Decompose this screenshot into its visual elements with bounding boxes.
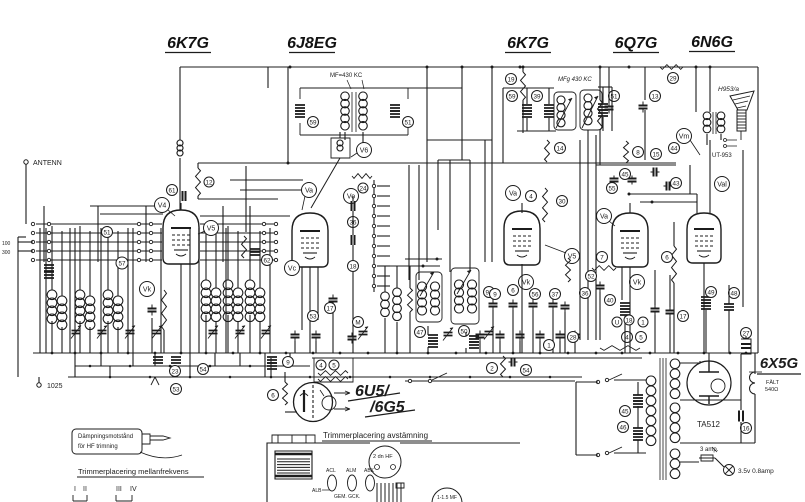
junction	[349, 376, 352, 379]
svg-text:I: I	[74, 486, 76, 493]
terminal	[408, 379, 411, 382]
svg-text:Trimmerplacering avstämning: Trimmerplacering avstämning	[323, 431, 428, 440]
junction	[285, 352, 288, 355]
wire Vm pointer	[690, 140, 700, 155]
resistor R15	[598, 100, 603, 130]
wire	[552, 310, 554, 353]
capacitor C39b	[544, 111, 554, 117]
trimmer capacitor	[208, 326, 218, 339]
IF2 former 1	[554, 92, 576, 130]
svg-text:2 dn HF: 2 dn HF	[373, 454, 393, 460]
label circle 39	[532, 91, 543, 102]
label circle 40	[605, 295, 616, 306]
svg-text:16: 16	[742, 425, 750, 432]
svg-text:50: 50	[460, 328, 468, 335]
wire stub	[18, 250, 33, 252]
label circle 6	[508, 285, 519, 296]
svg-text:17: 17	[326, 305, 334, 312]
IF transformer T1 frame	[300, 88, 408, 135]
switch contact	[31, 231, 34, 234]
wire	[673, 283, 675, 353]
wire stub	[377, 195, 390, 197]
wire	[637, 382, 639, 395]
label circle Vk	[140, 282, 155, 297]
junction	[209, 365, 212, 368]
label circle 51	[102, 227, 113, 238]
tube V2 6K7G	[504, 211, 540, 265]
coil RF L4b	[211, 288, 221, 322]
svg-text:Vm: Vm	[679, 134, 690, 141]
wire	[715, 458, 724, 467]
switch contact	[149, 231, 152, 234]
wire top HT bus	[180, 66, 758, 68]
label circle 37	[550, 289, 561, 300]
capacitor C23b	[171, 357, 181, 363]
wire	[587, 130, 589, 340]
switch contact	[31, 240, 34, 243]
junction	[539, 352, 542, 355]
junction	[169, 365, 172, 368]
capacitor C51	[390, 105, 400, 111]
wire	[680, 442, 755, 444]
wire	[728, 310, 730, 353]
svg-text:28: 28	[569, 334, 577, 341]
wire switch row	[36, 250, 162, 252]
underline mf	[77, 476, 204, 478]
wire	[469, 160, 471, 272]
wire	[237, 231, 239, 288]
junction	[461, 66, 464, 69]
wire	[89, 327, 91, 353]
wire IF2 bottom rail	[517, 130, 556, 132]
wire	[315, 341, 317, 353]
svg-text:61: 61	[168, 187, 176, 194]
junction	[709, 66, 712, 69]
wire	[249, 226, 251, 280]
label circle Vk	[519, 275, 534, 290]
text H953a	[718, 86, 739, 93]
capacitor C42	[666, 307, 675, 318]
wire eye to box	[312, 382, 314, 383]
text GEM GCK	[334, 494, 360, 500]
wire	[703, 263, 705, 353]
text I	[74, 486, 76, 493]
label circle 59	[308, 117, 319, 128]
svg-text:MFg 430 KC: MFg 430 KC	[558, 77, 592, 83]
wire	[384, 318, 386, 353]
text 6G5	[369, 399, 406, 416]
ground lug	[151, 377, 159, 385]
trimmer ABK	[366, 475, 375, 491]
resistor R10	[624, 141, 629, 163]
switch contact	[262, 240, 265, 243]
wire	[396, 322, 398, 353]
switch contact	[149, 240, 152, 243]
junction	[567, 352, 570, 355]
coil osc Lb1	[418, 282, 427, 315]
wire coupling a	[629, 193, 697, 195]
label circle Val	[715, 177, 730, 192]
switch contact	[274, 231, 277, 234]
junction	[429, 376, 432, 379]
label circle 6	[662, 252, 673, 263]
wire	[352, 245, 354, 260]
label circle V5	[565, 249, 580, 264]
wire	[745, 336, 747, 339]
wire bus 2 left	[75, 365, 310, 367]
switch contact	[31, 249, 34, 252]
label circle 59	[507, 91, 518, 102]
arrow T2 core 2	[582, 96, 598, 128]
wire	[270, 358, 272, 377]
wire	[502, 88, 504, 163]
wire	[317, 267, 319, 320]
wire switch stem	[373, 180, 375, 292]
capacitor C18	[610, 176, 619, 185]
wire coupling b	[640, 201, 697, 203]
wire	[740, 354, 742, 400]
junction	[651, 201, 654, 204]
wire	[309, 267, 311, 353]
wire left edge	[17, 237, 19, 377]
coil former 2	[451, 268, 479, 324]
wire	[427, 326, 429, 335]
label circle 47	[415, 327, 426, 338]
tube V1 6J8EG	[292, 213, 328, 267]
svg-text:56: 56	[531, 291, 539, 298]
switch contact S2	[372, 194, 375, 197]
junction	[469, 376, 472, 379]
svg-text:30: 30	[558, 198, 566, 205]
switch mains b	[596, 453, 599, 456]
switch contact S2	[372, 274, 375, 277]
switch contact	[47, 240, 50, 243]
capacitor row	[556, 331, 565, 342]
coil choke L7	[177, 140, 183, 156]
switch contact	[262, 249, 265, 252]
switch contact	[262, 222, 265, 225]
wire osc feed	[408, 165, 410, 280]
wire	[18, 236, 26, 238]
padding capacitor C64a	[428, 335, 438, 341]
junction	[703, 352, 706, 355]
wire cathode down	[180, 264, 182, 353]
wire row link	[90, 205, 160, 207]
label circle V4	[155, 198, 170, 213]
svg-text:48: 48	[730, 290, 738, 297]
label circle V5	[204, 221, 219, 236]
svg-text:300: 300	[2, 250, 11, 256]
switch contact	[47, 258, 50, 261]
label circle 1	[544, 340, 555, 351]
svg-text:Vc: Vc	[288, 266, 297, 273]
wire	[269, 228, 271, 353]
capacitor C41	[651, 305, 660, 316]
text TA512	[697, 420, 721, 429]
label circle 53	[308, 311, 319, 322]
resistor R osc	[408, 288, 413, 312]
switch mains a	[596, 380, 599, 383]
text lamp rating	[738, 468, 774, 475]
svg-text:29: 29	[669, 75, 677, 82]
label circle 48	[729, 288, 740, 299]
svg-text:Vk: Vk	[522, 280, 531, 287]
junction	[512, 352, 515, 355]
label circle 29	[668, 73, 679, 84]
svg-text:MF=430 KC: MF=430 KC	[330, 73, 363, 79]
wire V4 pointer	[168, 210, 175, 216]
probe wire	[140, 452, 182, 458]
wire	[301, 267, 303, 330]
wire drop2	[74, 366, 76, 377]
svg-text:57: 57	[118, 260, 126, 267]
field coil FALT	[749, 372, 762, 394]
label circle 61	[167, 185, 178, 196]
wire	[680, 461, 699, 463]
svg-text:53: 53	[309, 313, 317, 320]
tube V3 6Q7G	[612, 213, 648, 267]
junction	[289, 365, 292, 368]
label circle 7	[597, 252, 608, 263]
svg-text:14: 14	[556, 145, 564, 152]
underline 6U5	[348, 393, 415, 417]
capacitor C51r	[598, 104, 608, 110]
coil UT-953 primary	[703, 112, 711, 133]
switch arm pickup	[432, 373, 447, 380]
svg-text:37: 37	[551, 291, 559, 298]
wire	[352, 196, 354, 201]
coil TA512 HT secondary	[670, 359, 680, 399]
wire	[599, 130, 601, 165]
wire	[215, 231, 217, 288]
junction	[189, 376, 192, 379]
label circle 30	[557, 196, 568, 207]
wire	[709, 67, 711, 112]
label circle Vk	[630, 275, 645, 290]
coil RF L6a	[245, 280, 255, 322]
wire osc top link	[385, 265, 440, 267]
svg-text:46: 46	[619, 424, 627, 431]
wire antenna down	[25, 164, 27, 224]
capacitor row	[476, 331, 485, 342]
wire	[344, 132, 346, 140]
wire stub	[377, 205, 390, 207]
tube 6U5 internals	[300, 385, 336, 419]
junction	[599, 66, 602, 69]
switch mains b2	[605, 451, 608, 454]
capacitor C21b	[701, 303, 711, 309]
svg-text:Va: Va	[600, 214, 608, 221]
svg-text:100: 100	[2, 241, 11, 247]
wire	[396, 266, 398, 288]
wire stub	[377, 235, 390, 237]
junction	[312, 352, 315, 355]
svg-text:ALM: ALM	[346, 468, 356, 474]
wire	[198, 228, 200, 353]
wire	[574, 341, 576, 353]
capacitor C15	[651, 168, 660, 177]
switch contact	[274, 222, 277, 225]
wire	[526, 118, 528, 131]
underline 6X5G	[757, 373, 801, 375]
svg-text:UT-953: UT-953	[712, 153, 732, 159]
speaker H953 horn	[730, 91, 754, 110]
switch contact	[47, 249, 50, 252]
switch contact S2	[372, 284, 375, 287]
resistor R3	[162, 290, 167, 330]
label circle V6	[357, 143, 372, 158]
wire	[599, 67, 601, 100]
label circle 36	[348, 217, 359, 228]
coil antenna L3b	[113, 296, 123, 330]
wire	[598, 86, 612, 88]
switch contact S2	[372, 224, 375, 227]
wire	[479, 341, 481, 353]
wire	[225, 228, 227, 353]
wire	[576, 381, 598, 383]
junction	[270, 376, 273, 379]
wire	[740, 400, 742, 410]
junction	[595, 352, 598, 355]
junction	[232, 352, 235, 355]
junction	[309, 376, 312, 379]
tube label 6K7G second	[505, 35, 551, 53]
padding capacitor C50b	[469, 342, 479, 348]
junction	[677, 352, 680, 355]
capacitor row	[312, 331, 321, 342]
label circle 43	[671, 178, 682, 189]
capacitor	[489, 300, 498, 311]
wire	[163, 330, 165, 353]
switch contact	[137, 240, 140, 243]
label circle 14	[555, 143, 566, 154]
label circle 1	[638, 317, 648, 327]
wire	[198, 198, 278, 200]
wire	[97, 206, 99, 262]
wire	[160, 228, 162, 353]
svg-text:Val: Val	[717, 182, 727, 189]
label circle 55	[607, 183, 618, 194]
wire grid	[521, 203, 523, 213]
terminal 0	[37, 383, 41, 387]
switch contact S2	[372, 214, 375, 217]
arrow core 1	[420, 272, 434, 296]
wire	[484, 140, 486, 262]
svg-text:H953/a: H953/a	[718, 86, 739, 93]
switch contact	[31, 258, 34, 261]
coil antenna L1b	[57, 296, 67, 330]
svg-text:1: 1	[547, 342, 551, 349]
label circle 45	[620, 169, 631, 180]
probe tip	[142, 434, 170, 444]
coil RF L4a	[201, 280, 211, 322]
label circle 9	[490, 289, 501, 300]
svg-text:9: 9	[286, 359, 290, 366]
text for HF trimning	[78, 444, 118, 450]
wire	[284, 372, 286, 382]
capacitor	[529, 300, 538, 311]
electrolytic C27 can	[741, 339, 751, 354]
coil TA512 heater	[670, 449, 680, 479]
coil osc Lc1	[455, 280, 464, 313]
wire	[512, 310, 514, 353]
junction	[485, 352, 488, 355]
svg-text:3 amp.: 3 amp.	[700, 447, 719, 453]
wire stub	[377, 285, 390, 287]
label circle Va	[302, 183, 317, 198]
wire	[197, 163, 199, 168]
wire V5 pointer	[545, 245, 566, 253]
svg-text:23: 23	[171, 368, 179, 375]
svg-text:6K7G: 6K7G	[507, 35, 549, 52]
svg-text:9: 9	[493, 291, 497, 298]
wire	[492, 310, 494, 353]
wire	[237, 321, 239, 353]
wire	[637, 440, 639, 453]
wire	[608, 67, 610, 103]
svg-text:18: 18	[625, 317, 633, 324]
switch contact	[137, 249, 140, 252]
svg-text:4: 4	[625, 334, 629, 341]
wire Va pointer	[302, 196, 305, 210]
capacitor C46b	[633, 434, 643, 440]
wire stub	[377, 225, 390, 227]
capacitor C17	[628, 176, 637, 185]
padding capacitor C50a	[469, 336, 479, 342]
wire stub	[377, 215, 390, 217]
trimmer capacitor	[125, 326, 135, 339]
svg-text:19: 19	[507, 76, 515, 83]
wire	[519, 341, 521, 353]
wire right edge	[757, 67, 759, 353]
wire	[39, 228, 41, 353]
wire switch row	[36, 223, 162, 225]
svg-text:47: 47	[416, 329, 424, 336]
svg-text:4: 4	[529, 193, 533, 200]
junction	[729, 352, 732, 355]
capacitor C59rb	[522, 111, 532, 117]
wire	[339, 132, 341, 138]
wire drop2	[189, 366, 191, 377]
label circle 9	[283, 357, 294, 368]
text 300	[2, 250, 11, 256]
switch contact	[262, 258, 265, 261]
switch contact	[274, 258, 277, 261]
capacitor C37b	[561, 302, 570, 313]
wire	[522, 100, 524, 133]
svg-text:Vk: Vk	[143, 287, 152, 294]
wire	[576, 454, 598, 456]
label circle 17	[325, 303, 336, 314]
label circle 27	[741, 328, 752, 339]
junction	[249, 365, 252, 368]
switch contact	[47, 231, 50, 234]
svg-text:55: 55	[608, 185, 616, 192]
wire	[259, 231, 261, 288]
capacitor C16b	[739, 411, 743, 422]
chassis outline	[267, 443, 520, 502]
wire drop	[74, 353, 76, 366]
capacitor row	[496, 331, 505, 342]
wire drop2	[109, 366, 111, 377]
wire	[179, 158, 181, 210]
text FALT	[766, 379, 780, 386]
label circle 23	[170, 366, 181, 377]
trimmer capacitor	[235, 326, 245, 339]
capacitor C46	[633, 428, 643, 434]
wire	[426, 67, 428, 262]
wire	[595, 135, 597, 340]
